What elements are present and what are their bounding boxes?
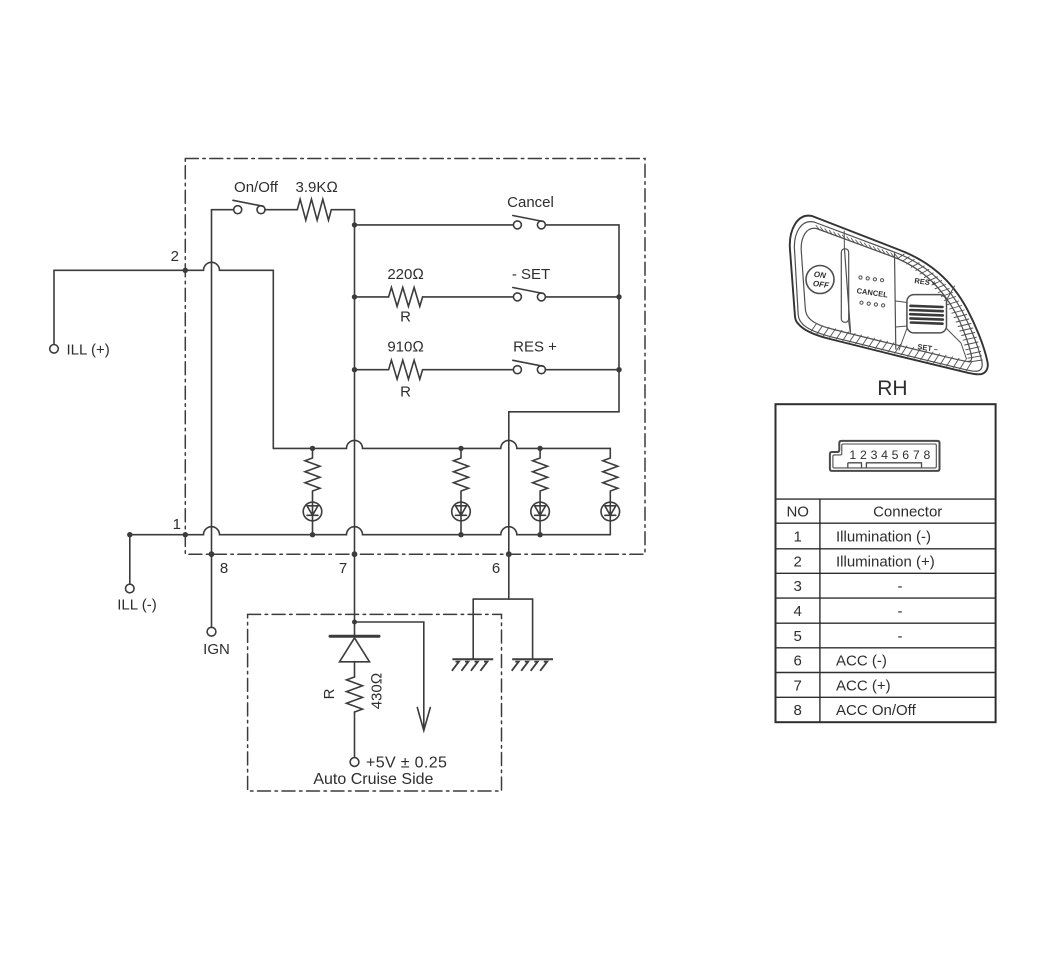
arrowhead: [417, 708, 430, 731]
node branch1 bottom: [310, 532, 315, 537]
svg-text:ACC On/Off: ACC On/Off: [836, 702, 917, 719]
wire resistor to bus: [331, 209, 354, 211]
LED branch 1 lamp: [303, 502, 322, 521]
svg-text:R: R: [400, 384, 411, 401]
RH rim top chain: [816, 225, 899, 258]
table header text: [786, 504, 942, 521]
wire LED top rail with humps: [273, 440, 610, 448]
LED branch 3 lamp: [531, 502, 550, 521]
svg-text:-: -: [898, 578, 903, 595]
RH rim bottom hatch: [810, 324, 972, 371]
RH switch inner rim: [794, 222, 982, 372]
RH thumbwheel facets: [896, 286, 967, 359]
table row 5: [794, 628, 903, 645]
connector drawing outline: [830, 441, 940, 471]
svg-text:RH: RH: [877, 377, 907, 400]
switch Cancel: [513, 221, 521, 229]
node set-row right junction: [616, 294, 621, 299]
svg-text:ACC (+): ACC (+): [836, 677, 891, 694]
svg-text:4: 4: [794, 603, 802, 620]
table row borders: [776, 523, 996, 697]
svg-text:Auto Cruise Side: Auto Cruise Side: [313, 771, 433, 788]
wire 220 to switch: [423, 296, 514, 298]
svg-text:910Ω: 910Ω: [387, 339, 424, 356]
svg-text:5: 5: [794, 628, 802, 645]
terminal ILL(+): [50, 345, 59, 354]
wire ILL(-) lead: [129, 535, 131, 585]
table row 6: [794, 653, 887, 670]
wire ground 2 drop: [532, 599, 534, 659]
pin 7 dot: [352, 551, 358, 557]
resistor 220 zigzag: [389, 287, 423, 306]
svg-text:- SET: - SET: [512, 266, 550, 283]
svg-text:+5V ± 0.25: +5V ± 0.25: [366, 755, 447, 772]
RH rim right hatch: [898, 254, 983, 362]
svg-text:-: -: [898, 603, 903, 620]
svg-text:2: 2: [171, 248, 179, 265]
wire IGN vertical (pin 8 net): [211, 210, 213, 627]
table row 1: [794, 529, 932, 546]
svg-text:2: 2: [794, 554, 802, 571]
wire set row left stub: [355, 296, 389, 298]
LED branch 1 resistor: [305, 448, 320, 502]
switch RES+: [513, 366, 521, 374]
ground 2 symbol: [512, 659, 553, 671]
RH divider 2: [895, 253, 896, 350]
node LED rail b1: [310, 446, 315, 451]
terminal ILL(-): [126, 584, 135, 593]
table row 8: [794, 702, 917, 719]
svg-text:NO: NO: [786, 504, 809, 521]
node zener top junction: [352, 620, 357, 625]
svg-text:Connector: Connector: [873, 504, 942, 521]
table row 2: [794, 554, 935, 571]
svg-text:RES +: RES +: [513, 339, 557, 356]
svg-text:8: 8: [923, 448, 930, 462]
svg-text:ILL (+): ILL (+): [67, 342, 110, 359]
resistor 3.9K zigzag: [297, 199, 331, 220]
wire on/off row left stub: [212, 209, 234, 211]
svg-text:6: 6: [492, 560, 500, 577]
svg-text:ACC (-): ACC (-): [836, 653, 887, 670]
node res-row left junction: [352, 367, 357, 372]
pin 6 dot: [506, 551, 512, 557]
node LED rail b2: [458, 446, 463, 451]
node branch3 bottom: [537, 532, 542, 537]
svg-text:ILL (-): ILL (-): [117, 597, 156, 614]
svg-text:6: 6: [794, 653, 802, 670]
switch On/Off: [234, 206, 242, 214]
pin 8 dot: [209, 551, 215, 557]
wire pin6 to ground header: [508, 554, 510, 599]
wire LED branch 2 bottom stub: [460, 521, 462, 535]
table row 4: [794, 603, 903, 620]
switch -SET: [513, 293, 521, 301]
terminal IGN: [207, 627, 216, 636]
node res-row right junction: [616, 367, 621, 372]
LED branch 3 resistor: [533, 448, 548, 502]
svg-text:6: 6: [902, 448, 909, 462]
wire 910 to switch: [423, 369, 514, 371]
RH thumbwheel: [907, 295, 947, 333]
node 2 junction dot: [183, 268, 188, 273]
RH switch face edge: [801, 228, 972, 361]
table column divider: [819, 499, 821, 722]
svg-text:7: 7: [913, 448, 920, 462]
wire cancel row: [355, 224, 514, 226]
svg-text:430Ω: 430Ω: [369, 673, 386, 710]
wire resistor to +5V terminal: [354, 712, 356, 758]
svg-text:3.9KΩ: 3.9KΩ: [296, 179, 338, 196]
ground 1 symbol: [452, 659, 493, 671]
svg-text:3: 3: [794, 578, 802, 595]
wire cancel to right bus: [546, 224, 619, 226]
wire diode to resistor: [354, 662, 356, 678]
zener diode triangle: [340, 638, 370, 662]
table row 7: [794, 677, 891, 694]
RH switch outer shell: [790, 216, 988, 375]
LED branch 2 resistor: [454, 448, 469, 502]
RH on/off button: [806, 266, 834, 294]
node net1 left corner: [127, 532, 132, 537]
resistor 910 zigzag: [389, 360, 423, 379]
wire LED branch 4 bottom stub: [609, 521, 611, 535]
svg-text:-: -: [898, 628, 903, 645]
wire net 2 from ILL(+) with hump over IGN wire: [54, 262, 273, 448]
svg-text:3: 3: [871, 448, 878, 462]
wire to signal arrow: [355, 622, 424, 729]
table row 3: [794, 578, 903, 595]
svg-text:On/Off: On/Off: [234, 179, 279, 196]
wire pin7 bus vertical: [354, 210, 356, 637]
node set-row left junction: [352, 294, 357, 299]
svg-text:Illumination (-): Illumination (-): [836, 529, 931, 546]
node LED rail b3: [537, 446, 542, 451]
svg-text:5: 5: [892, 448, 899, 462]
svg-text:Cancel: Cancel: [507, 194, 554, 211]
zener diode cathode bar: [330, 635, 379, 638]
svg-text:R: R: [321, 688, 338, 699]
wire net 1 rail with humps: [130, 527, 611, 535]
wire between switch and resistor: [265, 209, 297, 211]
wire LED branch 1 bottom stub: [312, 521, 314, 535]
connector drawing inner line: [833, 444, 936, 468]
wire res row left stub: [355, 369, 389, 371]
wire set to right bus: [546, 296, 619, 298]
RH cancel ring marks upper: [859, 276, 884, 282]
svg-text:Illumination (+): Illumination (+): [836, 554, 935, 571]
svg-text:8: 8: [794, 702, 802, 719]
node net1 border dot: [183, 532, 188, 537]
svg-text:7: 7: [339, 560, 347, 577]
node cancel-row junction: [352, 222, 357, 227]
wire ground 1 drop: [472, 599, 474, 659]
resistor 430 vertical zigzag: [347, 677, 363, 712]
wire ILL(+) lead: [53, 270, 55, 344]
RH cancel slider: [841, 249, 848, 322]
RH divider 1: [845, 250, 851, 332]
auto-cruise dash-dot box: [248, 614, 502, 791]
svg-text:R: R: [400, 309, 411, 326]
svg-text:2: 2: [860, 448, 867, 462]
connector pin numbers: [849, 448, 930, 462]
LED branch 4 resistor: [603, 448, 618, 502]
svg-text:8: 8: [220, 560, 228, 577]
terminal +5V: [350, 758, 359, 767]
svg-text:7: 7: [794, 677, 802, 694]
svg-text:1: 1: [849, 448, 856, 462]
svg-text:1: 1: [794, 529, 802, 546]
table header top border: [776, 498, 996, 500]
LED branch 2 lamp: [452, 502, 471, 521]
RH cancel ring marks lower: [860, 301, 885, 307]
wire LED branch 3 bottom stub: [539, 521, 541, 535]
svg-text:4: 4: [881, 448, 888, 462]
connector keyway detail: [848, 463, 922, 468]
wire res to right bus: [546, 369, 619, 371]
svg-text:220Ω: 220Ω: [387, 266, 424, 283]
svg-text:1: 1: [173, 516, 181, 533]
LED branch 4 lamp: [601, 502, 620, 521]
switch-assembly dash-dot box: [185, 159, 645, 555]
wire right bus down to pin6: [509, 225, 619, 554]
svg-text:IGN: IGN: [203, 641, 230, 658]
wire ground header horizontal: [473, 598, 532, 600]
connector table outer border: [776, 404, 996, 722]
node branch2 bottom: [458, 532, 463, 537]
